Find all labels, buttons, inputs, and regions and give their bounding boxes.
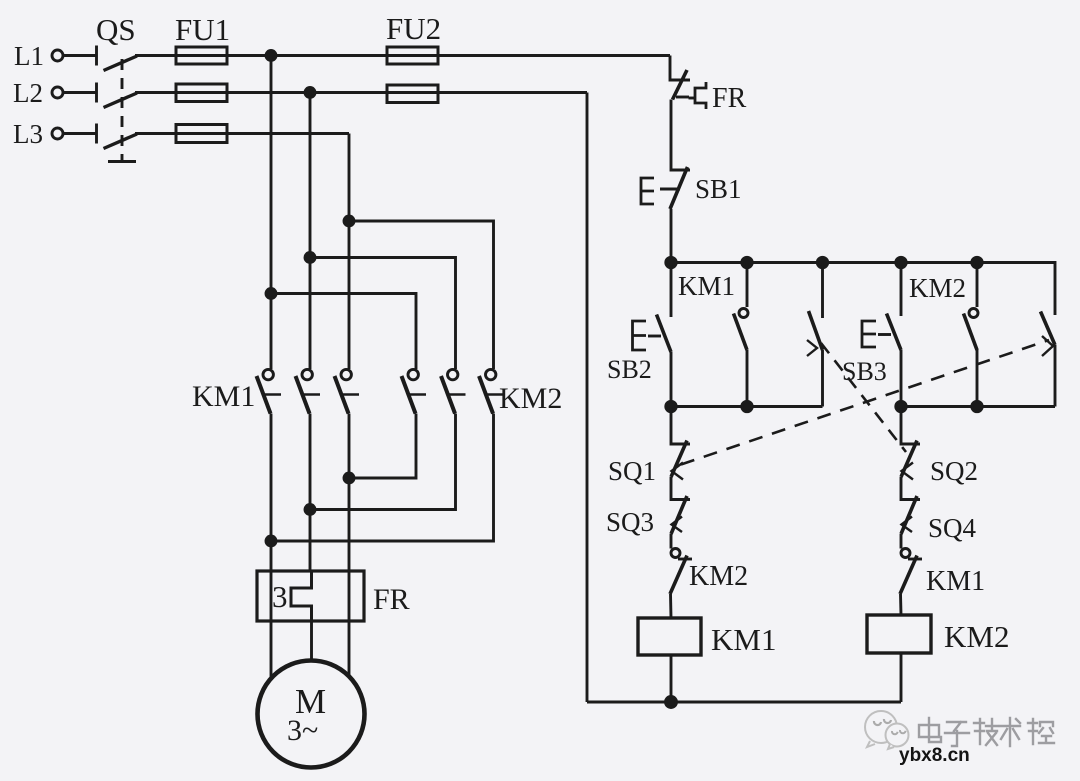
svg-text:QS: QS	[96, 12, 136, 47]
svg-text:FU1: FU1	[175, 12, 230, 47]
motor M 3-phase	[258, 661, 365, 768]
wire SQ1 to SQ3	[671, 477, 690, 500]
node L3	[13, 119, 63, 149]
wire L2 vertical drop to KM1 contact	[309, 93, 312, 370]
svg-text:KM2: KM2	[689, 561, 748, 592]
wire phase L3 row	[135, 132, 349, 135]
node bus junction 5	[972, 257, 982, 267]
wire FR to motor phase 1	[270, 621, 273, 679]
svg-text:KM1: KM1	[711, 622, 776, 657]
svg-text:KM2: KM2	[944, 619, 1009, 654]
wire bus to KM2 aux	[976, 263, 979, 308]
node branch tap on L3 drop	[344, 216, 354, 226]
wire KM1 interlock to KM2 coil	[899, 594, 902, 615]
limit switch SQ2 NO contact (linked)	[807, 311, 823, 356]
svg-text:SB2: SB2	[607, 355, 652, 384]
svg-text:L3: L3	[13, 119, 43, 149]
fuse FU1 pole 3	[176, 125, 227, 143]
node L1	[14, 41, 63, 71]
contactor KM1 main contact pole 1	[257, 369, 282, 413]
wire L1 terminal to QS	[63, 54, 96, 57]
svg-text:ybx8.cn: ybx8.cn	[899, 745, 970, 766]
fuse FU1 pole 1	[176, 47, 227, 64]
svg-text:FR: FR	[373, 583, 410, 616]
fuse FU1 pole 2	[176, 84, 227, 102]
contactor KM1 main contact pole 2	[296, 369, 321, 413]
pushbutton SB3 start-reverse (NO)	[862, 314, 901, 351]
wire FR box left phase inside	[270, 571, 273, 621]
node right sub-bus junction 2	[972, 401, 982, 411]
wire FR box right phase inside	[348, 571, 351, 621]
svg-text:3: 3	[272, 579, 288, 614]
limit switch SQ4 NC contact	[901, 496, 917, 534]
contactor KM2 auxiliary NO contact (self-hold)	[964, 309, 979, 351]
node junction crossover on phase 2	[305, 505, 315, 515]
svg-text:KM1: KM1	[926, 566, 985, 597]
wire control top bus	[671, 263, 1055, 316]
node left sub-bus junction 2	[742, 401, 752, 411]
switch QS pole 3	[97, 124, 138, 149]
node bus junction 3	[817, 257, 827, 267]
svg-text:SQ2: SQ2	[930, 456, 978, 486]
svg-text:SB3: SB3	[842, 357, 887, 386]
wire FR to motor phase 3	[348, 621, 351, 677]
node bottom bus junction	[666, 697, 677, 708]
wire SB1 to control bus	[670, 209, 673, 263]
wire L3 terminal to QS	[63, 132, 96, 135]
thermal relay FR heater element symbol	[291, 571, 312, 621]
wire bus to SB3	[900, 263, 903, 317]
wire SB2 to left sub-bus	[670, 352, 673, 407]
watermark text dianzi-jishu-kong	[919, 718, 1054, 746]
watermark logo chat bubbles	[865, 711, 909, 749]
wire KM1 pole 1 output down to FR	[270, 414, 273, 572]
wire KM1 aux to left sub-bus	[746, 350, 749, 407]
wire SQ4 to KM1 interlock	[900, 534, 903, 549]
svg-text:SQ1: SQ1	[608, 456, 656, 486]
thermal relay FR NC contact	[673, 70, 707, 109]
wire KM2 pole 2 output crossover	[310, 414, 456, 510]
node left sub-bus junction 1	[666, 401, 676, 411]
switch QS pole 2	[97, 83, 138, 108]
mechanical linkage SQ1 (dashed)	[681, 340, 1049, 465]
coil KM1	[638, 618, 701, 655]
coil KM2	[867, 615, 931, 653]
svg-text:SB1: SB1	[695, 174, 742, 204]
pushbutton SB1 stop (NC)	[641, 167, 688, 209]
wire left sub-bus down to SQ1	[671, 407, 690, 445]
wire branch L3 to KM2 contact 3	[349, 221, 494, 369]
wire bus to SB2	[670, 263, 673, 318]
contactor KM2 NC interlock contact	[670, 549, 692, 595]
contactor KM2 main contact pole 2	[441, 369, 466, 413]
svg-text:L2: L2	[13, 78, 43, 108]
svg-text:KM1: KM1	[678, 271, 735, 301]
wire KM2 pole 3 output crossover	[271, 414, 494, 542]
contactor KM1 main contact pole 3	[335, 369, 360, 413]
node junction L1 drop	[266, 51, 276, 61]
wire bottom bus	[587, 701, 901, 704]
svg-text:3~: 3~	[287, 714, 318, 747]
contactor KM1 NC interlock contact	[900, 549, 922, 595]
wire branch L1 to KM2 contact 1	[271, 294, 416, 370]
switch QS pole 1	[97, 46, 138, 71]
svg-text:SQ4: SQ4	[928, 513, 977, 543]
wire FR NC to SB1	[671, 100, 690, 171]
node L2	[13, 78, 63, 108]
node branch tap on L2 drop	[305, 253, 315, 263]
wire L2 rail (left return)	[586, 93, 589, 703]
node junction crossover on phase 1	[266, 536, 276, 546]
wire left sub-bus	[671, 405, 823, 408]
limit switch SQ1 NO contact (linked)	[1041, 312, 1056, 357]
wire L2 terminal to QS	[63, 91, 96, 94]
svg-text:KM2: KM2	[909, 273, 966, 303]
mechanical linkage SQ2 (dashed)	[821, 343, 906, 452]
wire KM2 aux to right sub-bus	[976, 349, 979, 407]
wire FR to motor phase 2	[310, 621, 313, 661]
wire L1 vertical drop to KM1 contact	[270, 56, 273, 370]
svg-text:FU2: FU2	[386, 11, 441, 46]
wire L1 corner down to control circuit	[670, 56, 690, 81]
node bus junction 2	[742, 257, 752, 267]
wire SB3 to right sub-bus	[900, 350, 903, 407]
wire KM1 coil to bottom bus	[670, 655, 673, 702]
contactor KM2 main contact pole 3	[479, 369, 504, 413]
wire bus to KM1 aux	[746, 263, 749, 308]
limit switch SQ2 NC contact	[901, 441, 917, 480]
node branch tap on L1 drop	[266, 289, 276, 299]
pushbutton SB2 start-forward (NO)	[633, 315, 672, 353]
wire phase L1 row	[135, 54, 670, 57]
svg-text:FR: FR	[712, 83, 747, 114]
node bus junction 1	[666, 257, 676, 267]
contactor KM1 auxiliary NO contact (self-hold)	[734, 309, 749, 351]
svg-text:SQ3: SQ3	[606, 507, 654, 537]
fuse FU2 pole 2	[387, 85, 438, 103]
wire bus to SQ2 linked NO contact	[821, 263, 824, 319]
thermal relay FR heater box	[257, 571, 364, 621]
node bus junction 4	[896, 257, 906, 267]
wire right sub-bus down to SQ2	[901, 407, 920, 445]
wire phase L2 row	[135, 91, 587, 94]
limit switch SQ1 NC contact	[671, 441, 687, 480]
node junction L2 drop	[305, 88, 315, 98]
contactor KM2 main contact pole 1	[402, 369, 427, 413]
node right sub-bus junction 1	[896, 401, 906, 411]
wire SQ3 to KM2 interlock	[670, 534, 673, 549]
wire L3 vertical drop to KM1 contact	[348, 134, 351, 370]
svg-text:KM1: KM1	[192, 380, 255, 413]
wire right sub-bus	[901, 405, 1055, 408]
limit switch SQ3 NC contact	[671, 496, 687, 534]
wire SQ2-NO to left sub-bus	[821, 350, 824, 407]
node junction crossover on phase 3	[344, 473, 354, 483]
QS mechanical linkage (dashed)	[108, 59, 136, 162]
wire KM2 pole 1 output crossover	[349, 414, 416, 479]
wire KM2 coil to bottom bus	[900, 653, 903, 702]
wire SQ2 to SQ4	[901, 477, 920, 500]
svg-text:KM2: KM2	[499, 382, 562, 415]
svg-text:L1: L1	[14, 41, 44, 71]
wire KM2 interlock to KM1 coil	[669, 594, 672, 618]
wire branch L2 to KM2 contact 2	[310, 258, 456, 370]
wire KM1 pole 2 output down to FR	[309, 414, 312, 572]
fuse FU2 pole 1	[387, 47, 438, 64]
wire SQ1-NO to right sub-bus	[1054, 345, 1057, 407]
wire KM1 pole 3 output down to FR	[348, 414, 351, 572]
